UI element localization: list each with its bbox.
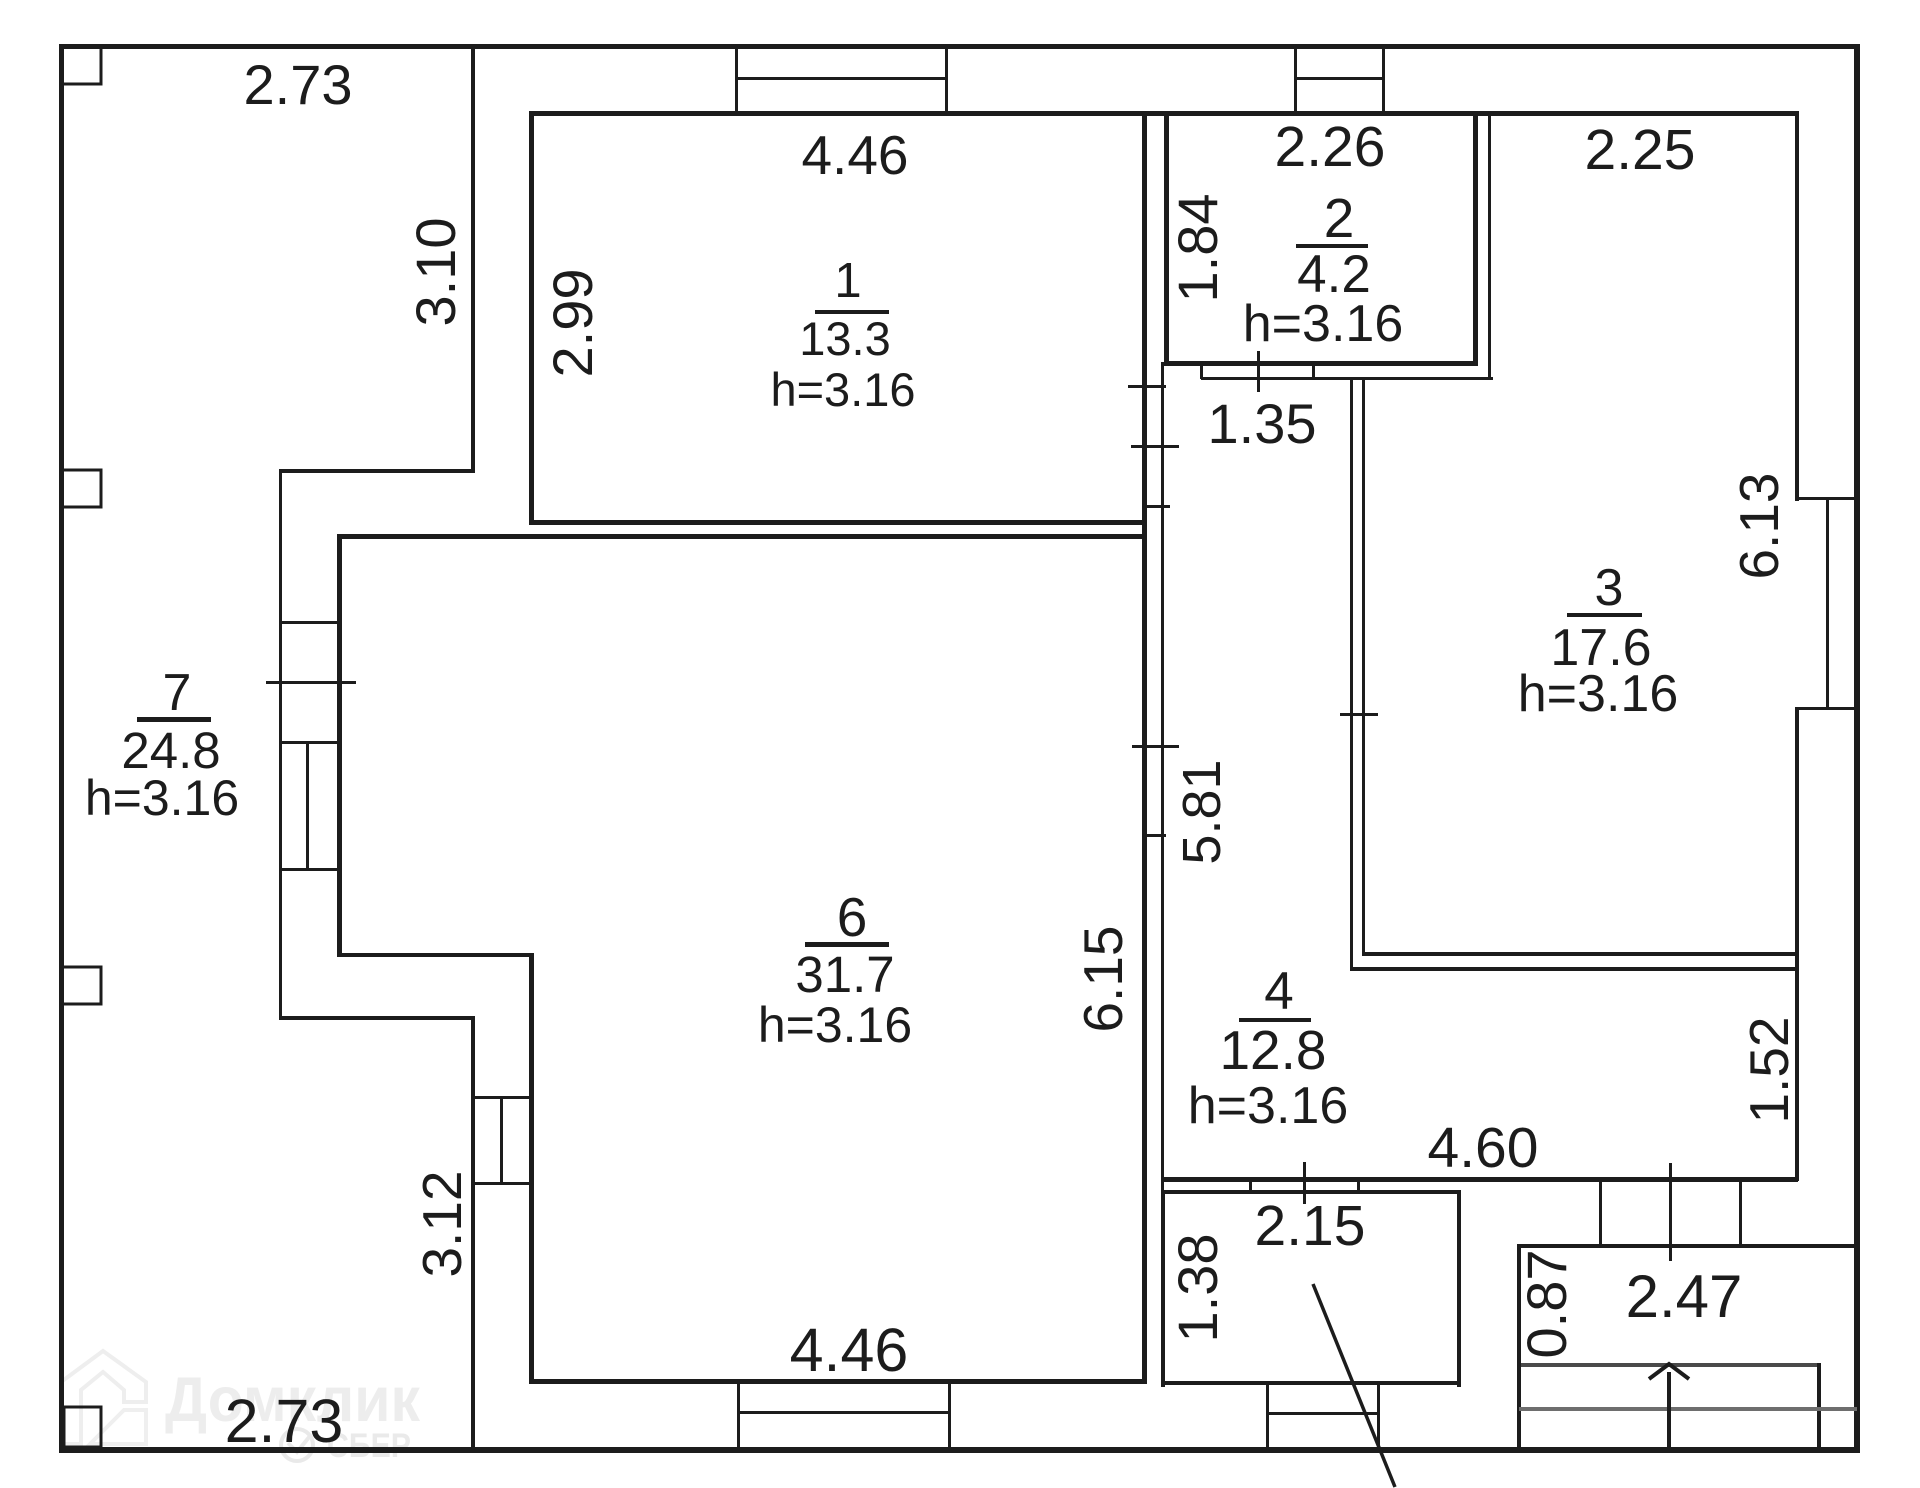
svg-text:6.13: 6.13	[1728, 472, 1790, 579]
window 7-6 lower connector y1184	[475, 1182, 532, 1185]
svg-text:4.46: 4.46	[801, 124, 908, 186]
window right y709	[1795, 707, 1857, 710]
door jamb x1314	[1312, 363, 1315, 379]
pillar left upper	[62, 470, 101, 507]
svg-text:4: 4	[1264, 962, 1293, 1021]
veranda wall x281	[279, 469, 282, 1020]
svg-text:4.60: 4.60	[1428, 1116, 1539, 1180]
window bottom-left vertical x950	[948, 1384, 951, 1449]
room2 right wall x1476	[1473, 111, 1478, 366]
window top-right mid y79	[1294, 77, 1385, 80]
svg-text:0.87: 0.87	[1515, 1250, 1578, 1359]
small room door jamb x1359	[1357, 1179, 1360, 1193]
svg-text:12.8: 12.8	[1219, 1019, 1326, 1081]
outer wall top	[59, 44, 1860, 49]
svg-text:5.81: 5.81	[1172, 759, 1232, 864]
dim tick y447	[1131, 445, 1179, 448]
window 7-6 lower connector y1098	[475, 1096, 532, 1099]
dim tick y507	[1142, 505, 1170, 508]
dim tick y836	[1144, 834, 1166, 837]
svg-text:1.38: 1.38	[1166, 1234, 1229, 1343]
window 7-6 connector y870	[281, 868, 338, 871]
door jamb x1601	[1599, 1179, 1602, 1246]
svg-text:2.99: 2.99	[541, 269, 604, 378]
pillar top-left	[62, 47, 101, 84]
svg-text:7: 7	[163, 664, 192, 722]
svg-text:3: 3	[1595, 559, 1624, 617]
svg-text:2.73: 2.73	[244, 53, 353, 116]
dim tick y683	[266, 681, 356, 684]
svg-text:6.15: 6.15	[1072, 925, 1134, 1032]
svg-text:6: 6	[837, 886, 868, 948]
porch step line 1 y1365	[1521, 1363, 1821, 1367]
small room right wall x1458	[1457, 1190, 1461, 1387]
window bottom-left vertical x739	[737, 1384, 740, 1449]
pillar bottom-left	[64, 1407, 101, 1447]
window 7-6 connector y623	[281, 621, 338, 624]
small room door tick x1305	[1303, 1162, 1306, 1204]
porch step vertical x1819	[1817, 1363, 1821, 1451]
outer wall bottom	[59, 1447, 1860, 1453]
room4 bottom wall y1179	[1161, 1177, 1798, 1182]
room6 left wall lower x533	[529, 953, 534, 1384]
door tick x1671	[1669, 1163, 1672, 1261]
svg-text:h=3.16: h=3.16	[1188, 1077, 1349, 1135]
svg-text:1.52: 1.52	[1738, 1016, 1800, 1123]
svg-text:2: 2	[1324, 187, 1355, 249]
room3 right wall x1797 upper	[1795, 111, 1799, 501]
door tick x1259	[1257, 351, 1260, 392]
veranda wall x474 lower	[471, 1016, 475, 1449]
room6 bottom wall y1381	[529, 1379, 1147, 1384]
room1 bottom wall y523	[529, 520, 1147, 525]
room6 top wall y537	[337, 534, 1147, 539]
window bottom-left mid y1413	[737, 1411, 951, 1414]
window top-left mid y79	[735, 77, 948, 80]
porch step line 2 y1409	[1519, 1407, 1857, 1411]
pillar left lower	[62, 967, 101, 1004]
dim tick y387	[1128, 385, 1166, 388]
veranda jog y1018	[279, 1016, 475, 1020]
outer wall right	[1854, 44, 1860, 1453]
window right y499	[1795, 497, 1857, 500]
room6 left wall upper x339	[337, 534, 342, 957]
svg-text:1.84: 1.84	[1166, 194, 1229, 303]
svg-text:1: 1	[834, 254, 861, 308]
svg-text:3.12: 3.12	[411, 1170, 473, 1277]
watermark group	[61, 1351, 420, 1465]
window top-left vertical x947	[945, 46, 948, 113]
room3 bottom lower face y969	[1350, 967, 1799, 971]
room3 left upper wall x1490	[1488, 111, 1491, 379]
svg-text:h=3.16: h=3.16	[1518, 665, 1679, 723]
entrance arrow shaft	[1667, 1372, 1671, 1452]
veranda jog y472	[279, 469, 475, 473]
small room top wall y1192	[1161, 1190, 1461, 1194]
window 7-6 lower mid x502	[500, 1096, 503, 1185]
svg-text:31.7: 31.7	[795, 946, 894, 1003]
window bottom-right vertical x1268	[1266, 1385, 1269, 1449]
door jamb x1741	[1739, 1179, 1742, 1246]
vestibule left wall x1519	[1517, 1244, 1521, 1452]
dim tick y715 on corridor wall	[1340, 713, 1378, 716]
window 7-6 connector y743	[281, 741, 338, 744]
svg-text:2.26: 2.26	[1275, 115, 1386, 179]
corridor right wall x1352	[1350, 377, 1353, 970]
room3 right wall x1797 lower	[1795, 707, 1799, 1181]
window 7-6 mid vertical x308	[306, 741, 309, 871]
svg-text:h=3.16: h=3.16	[85, 770, 239, 826]
small room bottom wall y1383	[1161, 1381, 1461, 1385]
svg-text:h=3.16: h=3.16	[770, 363, 915, 416]
veranda wall x474 upper	[471, 46, 475, 472]
svg-text:2.15: 2.15	[1255, 1194, 1366, 1258]
vestibule top wall y1246	[1517, 1244, 1857, 1248]
watermark house icon inner	[90, 1410, 146, 1444]
leader diagonal line	[1313, 1284, 1395, 1487]
room2 bottom wall y364	[1164, 361, 1478, 366]
entrance arrow head	[1649, 1364, 1689, 1379]
svg-text:2.47: 2.47	[1626, 1263, 1743, 1330]
svg-text:2.73: 2.73	[225, 1387, 344, 1455]
outer wall left	[59, 44, 64, 1453]
rooms top wall y113	[529, 111, 1799, 116]
window top-right vertical x1296	[1294, 46, 1297, 113]
door jamb x1202	[1200, 363, 1203, 379]
svg-text:4.46: 4.46	[790, 1316, 909, 1384]
room3 left wall x1364	[1362, 377, 1365, 956]
svg-text:h=3.16: h=3.16	[1243, 295, 1404, 353]
svg-text:h=3.16: h=3.16	[758, 997, 912, 1053]
corridor left wall x1144	[1142, 111, 1147, 1384]
svg-text:2.25: 2.25	[1585, 118, 1696, 182]
svg-text:1.35: 1.35	[1208, 392, 1317, 455]
room2 left wall x1167	[1164, 111, 1169, 366]
window top-right vertical x1384	[1382, 46, 1385, 113]
window bottom-right vertical x1379	[1377, 1385, 1380, 1449]
watermark house icon outer	[61, 1351, 146, 1444]
svg-text:3.10: 3.10	[404, 218, 467, 327]
svg-text:13.3: 13.3	[799, 312, 890, 365]
corridor right face x1163	[1161, 362, 1164, 1192]
room3 bottom wall y950	[1362, 952, 1799, 956]
dim tick y747	[1132, 745, 1179, 748]
room2 bottom lower face y379	[1201, 377, 1493, 380]
watermark sber circle	[281, 1429, 313, 1461]
room6 jog y955	[337, 953, 534, 957]
window bottom-right mid y1414	[1266, 1412, 1380, 1415]
window right mid x1828	[1826, 497, 1829, 709]
small room left wall	[1161, 1190, 1165, 1387]
small room door jamb x1251	[1249, 1179, 1252, 1193]
window top-left vertical x737	[735, 46, 738, 113]
room1 left wall x533	[529, 111, 534, 525]
